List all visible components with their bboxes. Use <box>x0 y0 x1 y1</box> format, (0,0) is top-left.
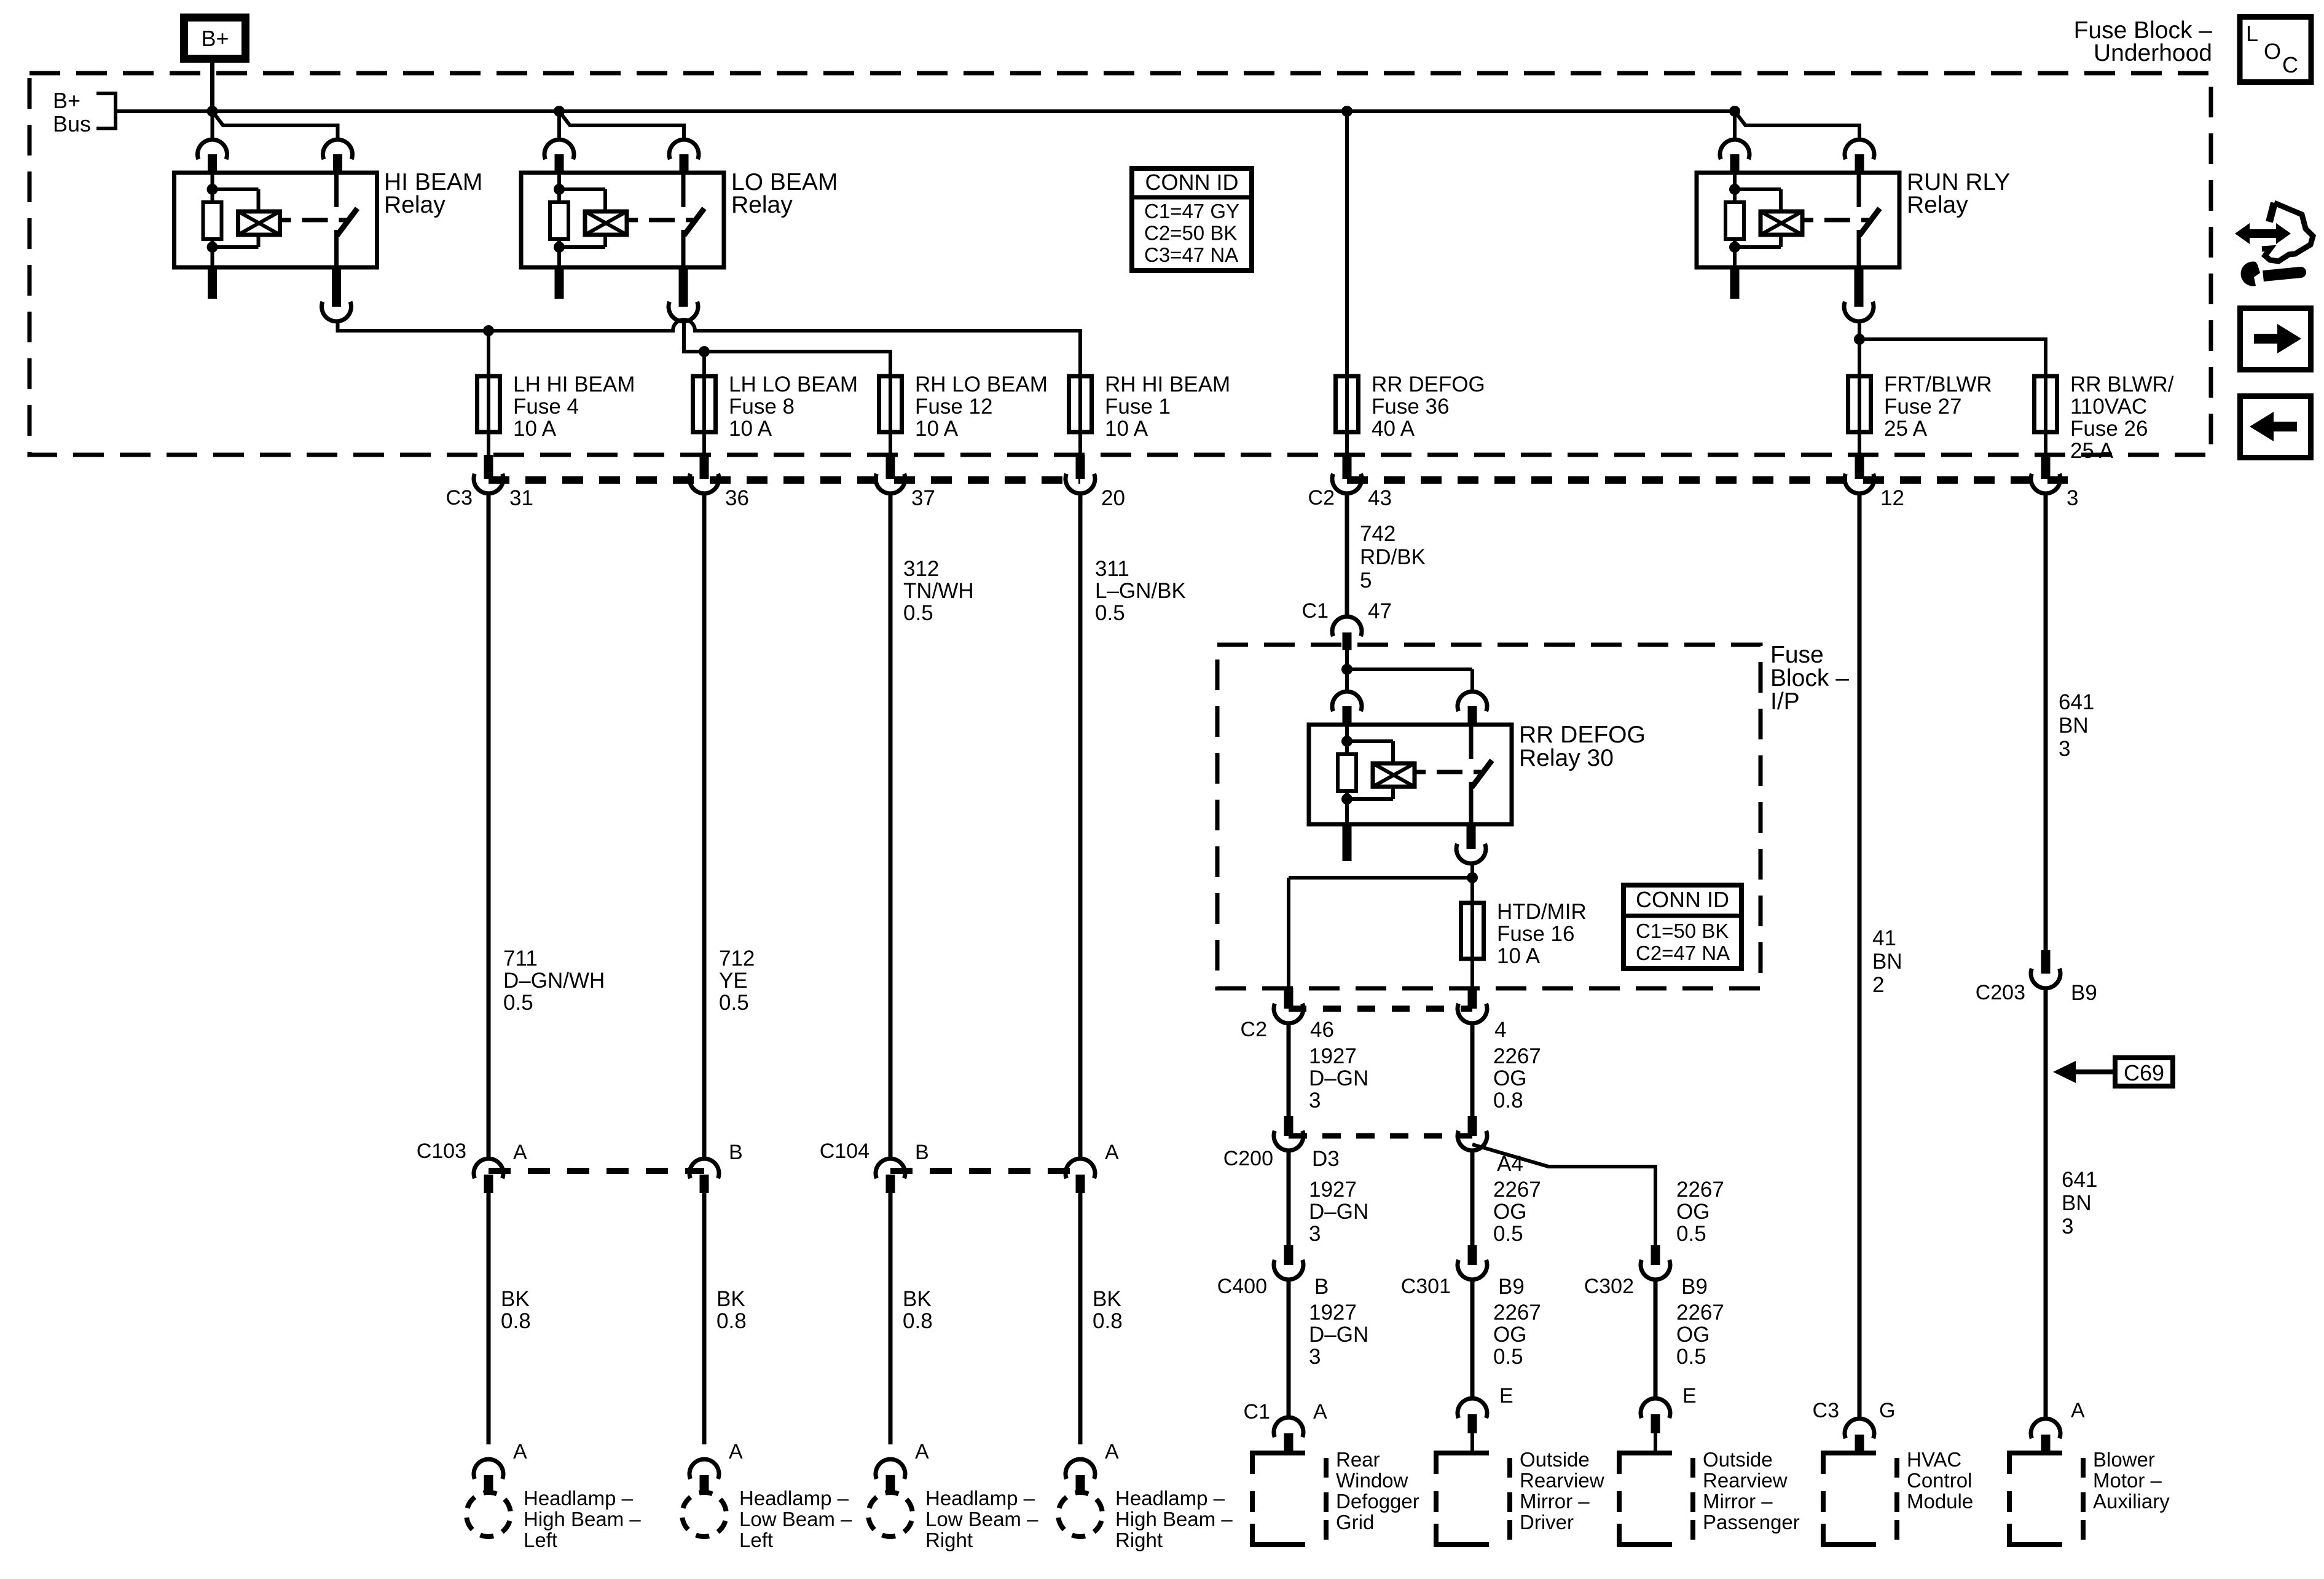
svg-text:RR BLWR/: RR BLWR/ <box>2070 372 2174 396</box>
svg-text:RH HI BEAM: RH HI BEAM <box>1105 372 1230 396</box>
svg-text:Defogger: Defogger <box>1336 1490 1419 1513</box>
svg-text:Fuse 1: Fuse 1 <box>1105 395 1171 419</box>
svg-text:Left: Left <box>524 1529 557 1551</box>
svg-text:B9: B9 <box>2071 981 2097 1005</box>
svg-text:711: 711 <box>503 947 538 971</box>
svg-text:A: A <box>1105 1141 1119 1164</box>
svg-text:YE: YE <box>719 969 748 993</box>
svg-text:C302: C302 <box>1584 1275 1634 1298</box>
svg-text:10 A: 10 A <box>1105 417 1148 441</box>
svg-text:Fuse 36: Fuse 36 <box>1372 395 1449 419</box>
svg-text:B: B <box>1314 1275 1329 1299</box>
svg-text:CONN ID: CONN ID <box>1636 887 1729 912</box>
svg-text:Blower: Blower <box>2093 1448 2155 1471</box>
svg-text:LH HI BEAM: LH HI BEAM <box>513 372 635 396</box>
svg-text:O: O <box>2264 39 2281 64</box>
svg-text:TN/WH: TN/WH <box>903 579 974 603</box>
svg-text:BK: BK <box>716 1287 745 1311</box>
svg-text:Passenger: Passenger <box>1703 1511 1800 1534</box>
svg-text:Mirror –: Mirror – <box>1520 1490 1590 1513</box>
svg-text:L–GN/BK: L–GN/BK <box>1095 579 1186 603</box>
svg-text:D–GN: D–GN <box>1309 1200 1368 1224</box>
svg-text:10 A: 10 A <box>1497 944 1541 968</box>
svg-text:BK: BK <box>501 1287 530 1311</box>
svg-text:C3=47 NA: C3=47 NA <box>1144 243 1238 266</box>
svg-text:0.8: 0.8 <box>1493 1089 1523 1112</box>
svg-text:Headlamp –: Headlamp – <box>739 1487 849 1510</box>
svg-text:A: A <box>513 1141 527 1164</box>
svg-text:Module: Module <box>1907 1490 1973 1513</box>
svg-text:0.5: 0.5 <box>1676 1345 1706 1369</box>
svg-text:712: 712 <box>719 947 755 971</box>
svg-text:0.5: 0.5 <box>1095 601 1125 625</box>
svg-text:CONN ID: CONN ID <box>1145 170 1239 195</box>
svg-text:A: A <box>729 1440 743 1463</box>
svg-text:36: 36 <box>725 486 749 510</box>
svg-text:2: 2 <box>1872 973 1884 997</box>
svg-text:RH LO BEAM: RH LO BEAM <box>915 372 1048 396</box>
svg-text:Fuse 26: Fuse 26 <box>2070 417 2148 441</box>
svg-text:C301: C301 <box>1401 1275 1451 1298</box>
svg-text:Underhood: Underhood <box>2094 40 2212 66</box>
svg-text:2267: 2267 <box>1493 1301 1541 1325</box>
svg-text:25 A: 25 A <box>2070 439 2114 463</box>
svg-text:0.5: 0.5 <box>903 601 933 625</box>
svg-text:2267: 2267 <box>1676 1301 1724 1325</box>
svg-text:0.5: 0.5 <box>1676 1222 1706 1246</box>
svg-text:3: 3 <box>2059 737 2070 761</box>
svg-text:5: 5 <box>1360 569 1372 593</box>
svg-text:Motor –: Motor – <box>2093 1469 2162 1492</box>
svg-text:10 A: 10 A <box>915 417 959 441</box>
svg-text:12: 12 <box>1880 486 1904 510</box>
svg-text:C103: C103 <box>417 1140 466 1163</box>
svg-text:2267: 2267 <box>1676 1178 1724 1202</box>
svg-text:10 A: 10 A <box>513 417 557 441</box>
svg-text:L: L <box>2246 21 2258 46</box>
svg-text:1927: 1927 <box>1309 1178 1357 1202</box>
svg-text:C200: C200 <box>1223 1147 1273 1170</box>
svg-text:Headlamp –: Headlamp – <box>1115 1487 1225 1510</box>
svg-text:Low Beam –: Low Beam – <box>925 1508 1038 1530</box>
svg-text:Right: Right <box>1115 1529 1163 1551</box>
svg-text:37: 37 <box>911 486 935 510</box>
svg-text:C104: C104 <box>820 1140 870 1163</box>
svg-text:C3: C3 <box>446 486 473 510</box>
svg-text:BK: BK <box>903 1287 932 1311</box>
svg-text:D–GN: D–GN <box>1309 1066 1368 1090</box>
svg-text:C2=50 BK: C2=50 BK <box>1144 222 1237 245</box>
svg-text:Bus: Bus <box>53 111 91 136</box>
svg-text:OG: OG <box>1676 1200 1710 1224</box>
svg-text:Relay: Relay <box>731 192 793 218</box>
svg-text:C203: C203 <box>1976 981 2025 1004</box>
svg-text:B: B <box>915 1141 929 1164</box>
svg-text:C2=47 NA: C2=47 NA <box>1636 942 1730 964</box>
svg-text:C1=50 BK: C1=50 BK <box>1636 919 1729 942</box>
svg-text:High Beam –: High Beam – <box>524 1508 641 1530</box>
svg-text:Block –: Block – <box>1770 665 1849 691</box>
svg-text:110VAC: 110VAC <box>2070 395 2147 419</box>
svg-text:OG: OG <box>1493 1066 1526 1090</box>
svg-text:2267: 2267 <box>1493 1178 1541 1202</box>
svg-text:0.5: 0.5 <box>719 991 749 1015</box>
svg-text:B9: B9 <box>1681 1275 1708 1299</box>
svg-text:40 A: 40 A <box>1372 417 1415 441</box>
svg-text:0.5: 0.5 <box>1493 1222 1523 1246</box>
svg-text:312: 312 <box>903 557 939 581</box>
svg-text:Rearview: Rearview <box>1520 1469 1604 1492</box>
svg-text:B+: B+ <box>53 88 80 113</box>
svg-text:Relay: Relay <box>1907 192 1968 218</box>
svg-text:C: C <box>2282 52 2298 77</box>
svg-text:A: A <box>915 1440 929 1463</box>
svg-text:C400: C400 <box>1217 1275 1267 1298</box>
svg-text:Fuse 4: Fuse 4 <box>513 395 579 419</box>
svg-text:Rear: Rear <box>1336 1448 1380 1471</box>
svg-text:C1: C1 <box>1302 599 1329 623</box>
svg-text:OG: OG <box>1493 1200 1526 1224</box>
svg-text:Outside: Outside <box>1703 1448 1773 1471</box>
svg-text:C3: C3 <box>1813 1399 1839 1422</box>
svg-text:47: 47 <box>1368 599 1392 623</box>
svg-text:Window: Window <box>1336 1469 1408 1492</box>
svg-text:LH LO BEAM: LH LO BEAM <box>729 372 858 396</box>
svg-text:3: 3 <box>1309 1222 1321 1246</box>
svg-text:Relay 30: Relay 30 <box>1519 745 1614 771</box>
svg-text:10 A: 10 A <box>729 417 772 441</box>
svg-text:B: B <box>729 1141 743 1164</box>
svg-text:311: 311 <box>1095 557 1129 581</box>
svg-text:I/P: I/P <box>1770 688 1800 715</box>
svg-text:1927: 1927 <box>1309 1301 1357 1325</box>
svg-text:A: A <box>1105 1440 1119 1463</box>
svg-text:A: A <box>513 1440 527 1463</box>
svg-text:Fuse 27: Fuse 27 <box>1884 395 1961 419</box>
svg-text:HTD/MIR: HTD/MIR <box>1497 900 1587 924</box>
svg-text:Mirror –: Mirror – <box>1703 1490 1773 1513</box>
svg-text:Relay: Relay <box>384 192 446 218</box>
svg-text:OG: OG <box>1676 1323 1710 1347</box>
svg-text:2267: 2267 <box>1493 1044 1541 1068</box>
svg-text:Left: Left <box>739 1529 773 1551</box>
svg-text:Fuse: Fuse <box>1770 642 1824 668</box>
svg-text:BN: BN <box>2062 1191 2092 1215</box>
svg-text:C2: C2 <box>1308 486 1335 510</box>
svg-text:0.8: 0.8 <box>716 1309 747 1333</box>
svg-text:20: 20 <box>1101 486 1125 510</box>
svg-text:G: G <box>1879 1399 1895 1422</box>
svg-text:742: 742 <box>1360 522 1396 546</box>
svg-text:0.5: 0.5 <box>503 991 533 1015</box>
svg-text:Fuse 16: Fuse 16 <box>1497 922 1574 946</box>
svg-text:Fuse 8: Fuse 8 <box>729 395 795 419</box>
svg-text:0.5: 0.5 <box>1493 1345 1523 1369</box>
svg-text:RR DEFOG: RR DEFOG <box>1519 722 1646 748</box>
svg-text:E: E <box>1499 1384 1513 1408</box>
svg-text:Outside: Outside <box>1520 1448 1590 1471</box>
svg-text:641: 641 <box>2062 1168 2097 1192</box>
svg-text:D–GN/WH: D–GN/WH <box>503 969 605 993</box>
svg-text:1927: 1927 <box>1309 1044 1357 1068</box>
svg-text:Low Beam –: Low Beam – <box>739 1508 852 1530</box>
svg-text:B9: B9 <box>1498 1275 1525 1299</box>
svg-text:0.8: 0.8 <box>501 1309 531 1333</box>
svg-text:A: A <box>2071 1399 2085 1422</box>
svg-text:43: 43 <box>1368 486 1392 510</box>
svg-text:B+: B+ <box>201 26 229 51</box>
svg-text:High Beam –: High Beam – <box>1115 1508 1233 1530</box>
svg-text:HVAC: HVAC <box>1907 1448 1961 1471</box>
svg-text:C1=47 GY: C1=47 GY <box>1144 200 1239 222</box>
svg-text:46: 46 <box>1310 1018 1334 1042</box>
svg-text:31: 31 <box>509 486 533 510</box>
svg-text:Rearview: Rearview <box>1703 1469 1788 1492</box>
svg-text:D3: D3 <box>1312 1147 1340 1171</box>
svg-text:OG: OG <box>1493 1323 1526 1347</box>
svg-text:3: 3 <box>2067 486 2078 510</box>
svg-text:3: 3 <box>1309 1345 1321 1369</box>
svg-text:Control: Control <box>1907 1469 1972 1492</box>
svg-text:C2: C2 <box>1241 1018 1267 1041</box>
svg-text:25 A: 25 A <box>1884 417 1928 441</box>
svg-text:Fuse 12: Fuse 12 <box>915 395 992 419</box>
svg-text:RR DEFOG: RR DEFOG <box>1372 372 1485 396</box>
svg-text:C69: C69 <box>2124 1060 2164 1085</box>
svg-text:D–GN: D–GN <box>1309 1323 1368 1347</box>
svg-text:BK: BK <box>1093 1287 1121 1311</box>
svg-text:3: 3 <box>2062 1215 2073 1238</box>
svg-text:0.8: 0.8 <box>1093 1309 1123 1333</box>
svg-text:4: 4 <box>1494 1018 1506 1042</box>
svg-text:Grid: Grid <box>1336 1511 1374 1534</box>
svg-text:C1: C1 <box>1244 1400 1270 1423</box>
svg-text:41: 41 <box>1872 926 1896 950</box>
svg-text:Right: Right <box>925 1529 973 1551</box>
svg-text:0.8: 0.8 <box>903 1309 933 1333</box>
svg-text:Headlamp –: Headlamp – <box>524 1487 634 1510</box>
svg-text:FRT/BLWR: FRT/BLWR <box>1884 372 1992 396</box>
svg-text:641: 641 <box>2059 690 2094 714</box>
svg-text:Auxiliary: Auxiliary <box>2093 1490 2170 1513</box>
svg-text:BN: BN <box>1872 950 1902 974</box>
svg-text:BN: BN <box>2059 714 2089 738</box>
svg-text:3: 3 <box>1309 1089 1321 1112</box>
svg-text:A: A <box>1313 1400 1327 1423</box>
svg-text:E: E <box>1682 1384 1697 1408</box>
svg-text:RD/BK: RD/BK <box>1360 545 1426 569</box>
svg-text:Driver: Driver <box>1520 1511 1574 1534</box>
svg-text:Headlamp –: Headlamp – <box>925 1487 1035 1510</box>
